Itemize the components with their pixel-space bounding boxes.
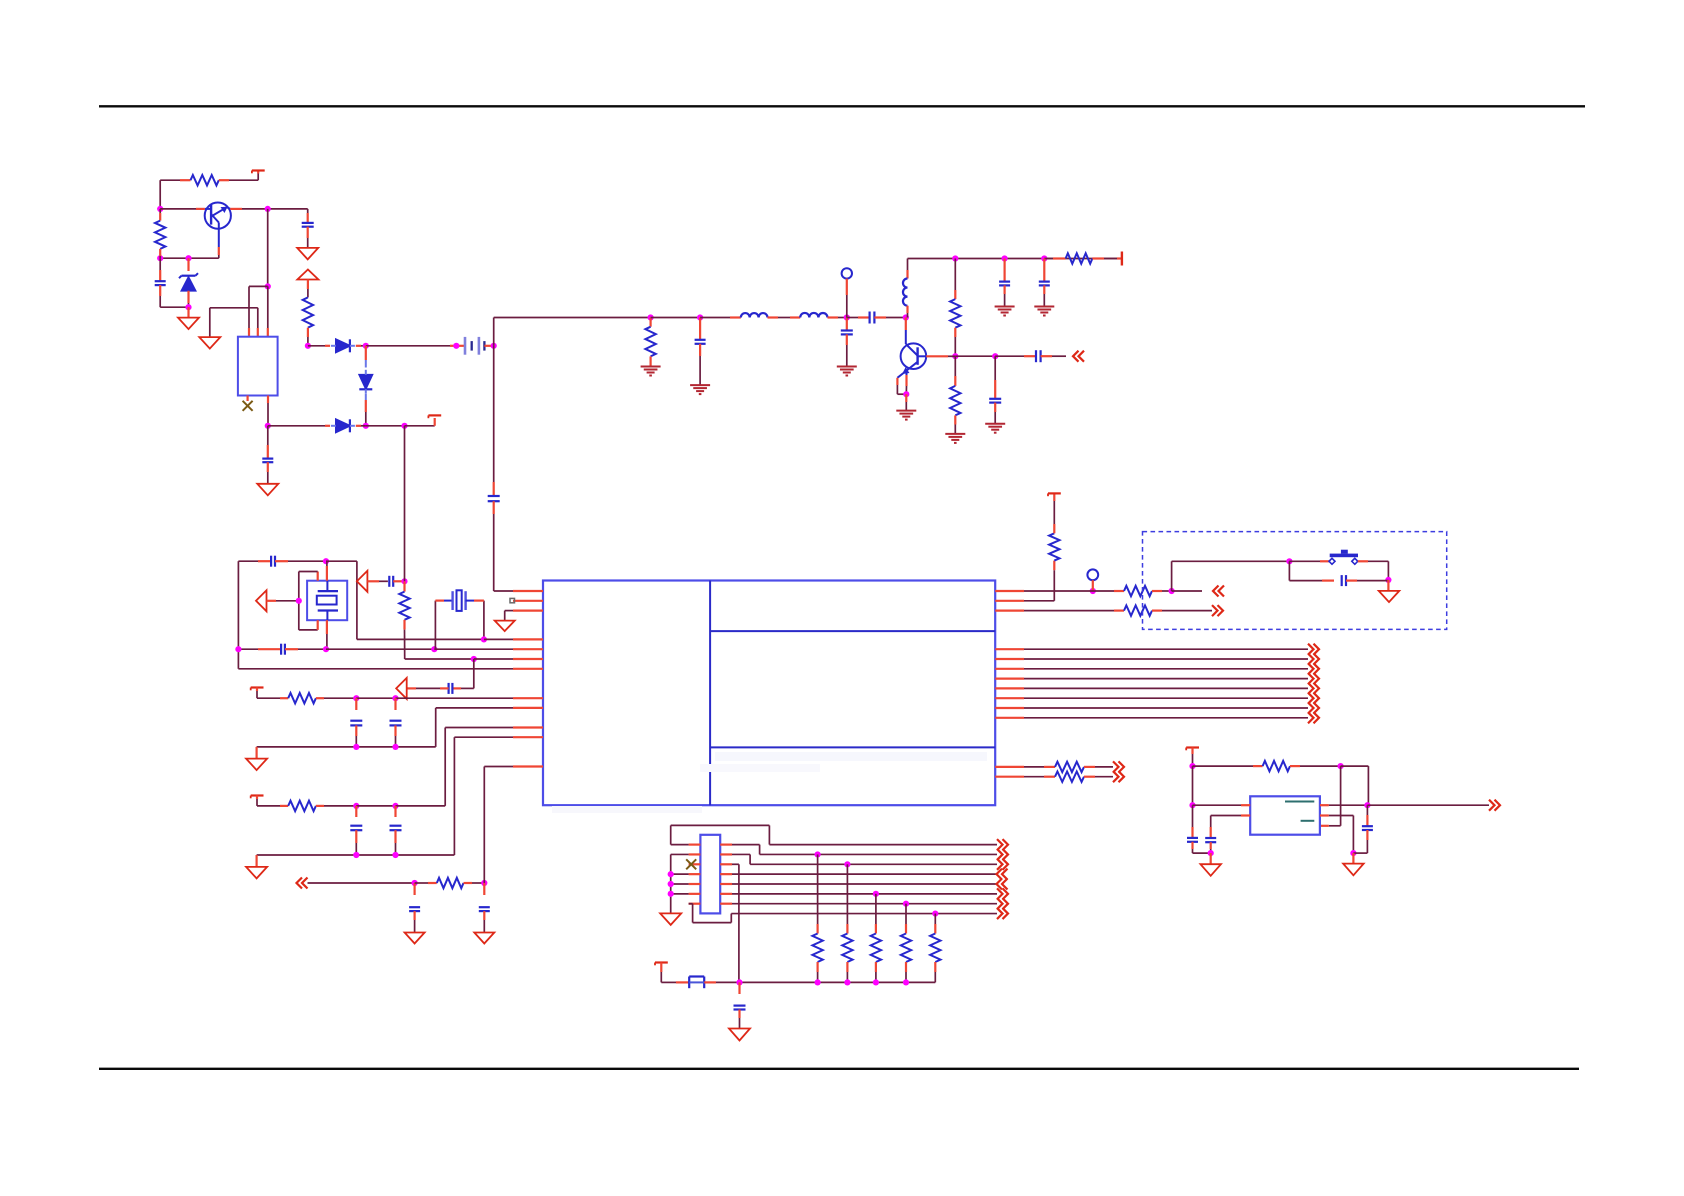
capacitor C16 [355,806,357,817]
junction [353,852,359,858]
capacitor C3 to IC [493,346,495,482]
wire r2 right jog [732,853,750,855]
junction [453,343,459,349]
ground GND6 [474,933,494,944]
oscillator Y1 [307,581,347,621]
capacitor C25 [267,426,269,445]
top frame line [99,105,1585,107]
wire pinB left [1241,814,1250,816]
offpage connectors bottom bus [1003,839,1009,850]
resistor R2 [159,209,161,213]
wire r7 left loop row8 [689,903,693,905]
ground GND3 [256,747,258,759]
junction [323,558,329,564]
wire main horizontal [494,317,651,319]
junction [353,695,359,701]
resistor R3 [307,280,309,290]
resistor R1 [191,175,219,185]
diode D2 [336,419,350,432]
wire row767 [1024,766,1044,768]
transistor Q1 [205,203,231,229]
capacitor C10 series [995,355,1024,357]
capacitor C1 [159,258,161,270]
junction [844,314,850,320]
capacitor C21 [738,982,740,994]
junction [265,423,271,429]
left ground vertical [671,853,689,855]
wire r1 left loop [671,844,689,846]
junction [392,744,398,750]
supervisor IC U2 [238,337,278,396]
resistor R8 [403,581,405,591]
wire row611 right [1024,610,1114,612]
junction [235,646,241,652]
capacitor C2 [307,209,309,213]
wire down to arrow row [473,659,475,688]
bus row1 [769,844,997,846]
junction [157,255,163,261]
wire to power bar [405,425,435,427]
pull resistor RN5 [934,914,936,924]
power symbol VCC6 [1048,492,1061,494]
capacitor C23 [1210,827,1212,838]
capacitor C18 [414,883,416,895]
IC right pins top [995,590,1024,592]
transistor Q2 [905,318,907,331]
junction [1338,763,1344,769]
junction [353,744,359,750]
bus row2 [760,853,997,855]
ground GND14 [209,308,211,337]
junction [1286,558,1292,564]
ground GND5 [405,933,425,944]
earth ground E2 [690,384,710,386]
offpage connectors right bus [1314,644,1320,655]
ground GND8 [1387,580,1389,591]
junction [491,343,497,349]
resistor R17 [1263,761,1290,771]
offpage connector right3 [1119,771,1125,782]
earth ground E6 [1034,306,1054,308]
bottom rail [661,981,676,983]
junction [1364,802,1370,808]
wire reg top [1193,765,1254,767]
junction [185,255,191,261]
resistor R15 [1055,762,1084,772]
junction [952,353,958,359]
junction dots on bus [815,851,821,857]
resistor R11 [415,882,428,884]
IC right pins bus [995,648,1024,650]
ground GND12 [1352,853,1354,864]
junction [903,314,909,320]
offpage connector right2 [1119,761,1125,772]
wire row E to pin766 [483,767,485,884]
wire from diode row2 down [404,426,406,582]
junction [1090,588,1096,594]
crystal Y2 [434,601,436,650]
capacitor C19 [483,883,485,895]
wire r3 to rail [732,863,739,865]
wire to battery [366,345,450,347]
wire row 698 [257,697,280,699]
junction [668,891,674,897]
earth ground E1 [641,366,661,368]
capacitor C24 [1366,805,1368,815]
capacitor C7 [994,356,996,380]
wire to zener ground node [160,306,188,308]
wire supervisor mid pin [210,307,258,309]
resistor R12 [1124,586,1152,596]
power symbol VCC1 [252,169,265,171]
left vertical osc [237,561,239,669]
wire Q2 collector row [926,355,948,357]
ghost text residue [715,752,987,761]
offpage connector left1 [1073,351,1079,362]
capacitor C12 [388,576,390,587]
connector pins [689,843,701,845]
resistor R9 [288,693,316,703]
junction [363,343,369,349]
wire battery node up [493,318,495,346]
wire row C to pin728 [444,728,446,806]
power arrow VDD [297,270,318,280]
wire to switch net [1171,561,1173,591]
power symbol VCC2 [428,414,441,416]
resistor R10 [288,801,316,811]
zener diode Z1 [187,258,189,271]
inductor L1 [741,313,768,317]
wire top rail to cap column [268,208,308,210]
ground GND7 pin611 [505,610,513,612]
offpage connector left3 [1172,590,1202,592]
main vertical net [267,209,269,287]
pin1 square marker [510,598,515,602]
bus row3 [750,863,997,865]
wire top-left rail [160,179,180,181]
wire switch right down [1387,561,1389,580]
junction [873,979,879,985]
IC U1 divider vertical [709,581,711,806]
junction [323,646,329,652]
junction [1169,588,1175,594]
ground GND10 [729,1029,750,1041]
wire row E [308,882,415,884]
earth ground E3 [837,366,857,368]
wire top rail RF [908,258,1122,260]
no-connect X [247,396,249,402]
wire pinA left [1241,804,1250,806]
junction [305,343,311,349]
capacitor C17 [394,806,396,817]
power arrow left A3 [396,678,407,699]
wire pinC branch [1340,766,1342,826]
IC left pins [513,590,543,592]
wire row C [257,805,280,807]
resistor R7 rail [1044,258,1053,260]
wire osc right vertical [356,561,358,639]
capacitor C4 [699,318,701,340]
connector J1 [700,835,720,914]
junction [903,979,909,985]
bus wires right [1024,648,1308,650]
junction [265,206,271,212]
ground GND9 [660,913,681,925]
resistor R6 [954,356,956,376]
wire diode row2 [268,425,325,427]
diode D3 vertical [365,346,367,360]
offpage connector left2 [297,878,303,889]
IC right pins lower [995,766,1024,768]
wire r1 right jog [732,844,760,846]
ground GND2 [297,248,318,260]
junction [392,852,398,858]
resistor R14 [1124,605,1152,615]
wire Q1 collector down [218,229,220,247]
IC U1 divider h1 [710,630,995,632]
junction [1350,850,1356,856]
capacitor C11 [270,556,272,567]
junction [648,314,654,320]
junction [1208,850,1214,856]
node A junction [157,206,163,212]
bus row8 [731,913,997,915]
bus rows 4-7 [732,873,997,875]
power symbol VCC7 [655,961,668,963]
capacitor C20 [1341,575,1343,586]
inductor L2 [800,313,827,318]
ground GND13 [257,484,278,496]
junction [1041,255,1047,261]
IC U1 outline [543,581,995,806]
junction [1189,802,1195,808]
wire [651,317,701,319]
junction [1189,763,1195,769]
wire row B [257,746,436,748]
power symbol VCC4 [251,686,264,688]
junction [471,656,477,662]
ground GND1 [187,307,189,317]
power arrow left A1 [256,590,267,611]
ground GND4 [256,855,258,867]
wire reg left vertical [1192,766,1194,805]
earth ground E8 [985,423,1005,425]
junction [1385,577,1391,583]
wire reg right vertical [1367,766,1369,805]
wire R8 to xtal row [404,630,406,659]
junction [353,803,359,809]
wire Q1 emitter to node [230,208,242,210]
wire base feed [160,208,196,210]
wire switch top [1289,560,1320,562]
earth ground E7 [905,394,907,402]
power arrow left A2 [357,571,368,592]
junction [1002,255,1008,261]
junction [412,880,418,886]
capacitor C9 [1043,259,1045,282]
IC U1 divider h2 [710,746,995,748]
wire [700,317,730,319]
resistor R13 [1053,561,1055,571]
pull resistor RN3 [875,894,877,924]
regulator U3 [1250,796,1320,834]
pull resistor RN1 [817,854,819,924]
wire osc top [238,560,258,562]
resistor R5 [954,259,956,291]
junction [815,979,821,985]
power bar VCC3 [1121,252,1123,266]
junction [952,255,958,261]
osc box pins [317,572,319,581]
capacitor C26 [452,687,461,689]
junction [392,803,398,809]
junction [401,423,407,429]
junction [401,578,407,584]
junction [844,979,850,985]
wire supervisor out [267,396,269,404]
junction [296,598,302,604]
dashed option box [1143,532,1447,630]
junction [697,314,703,320]
wire row601 right [1024,600,1054,602]
junction [668,871,674,877]
resistor R16 [1055,772,1084,782]
wire osc bottom row [238,648,258,650]
wire Q2 emitter [896,378,898,385]
capacitor C14 [355,698,357,710]
wire row B to pin708 [435,708,437,747]
diode D1 [336,339,350,352]
wire row 258 [160,257,219,259]
junction [481,636,487,642]
junction [736,979,742,985]
capacitor C8 [1003,259,1005,282]
no-connect X2 [686,859,696,869]
capacitor C13 [280,644,282,655]
regulator text lines [1285,801,1314,803]
battery BT1 [464,337,467,355]
capacitor C15 [394,698,396,710]
power symbol VCC8 [1186,746,1199,748]
wire row591 right [1024,590,1086,592]
earth ground E4 [945,433,965,435]
testpoint TP1 [842,268,852,278]
wire cap branch [1288,561,1290,580]
junction [431,646,437,652]
testpoint TP2 [1087,569,1098,580]
wire row D to pin737 [453,737,455,855]
junction [992,353,998,359]
wire supervisor left pin [249,285,268,287]
resistor R4 [649,318,651,327]
wire row777 [1024,776,1044,778]
pull resistor RN4 [905,904,907,924]
junction [668,881,674,887]
junction [185,304,191,310]
pushbutton SW1 [1330,554,1358,558]
capacitor C6 series [847,317,858,319]
junction [363,423,369,429]
offpage connector right4 [1495,800,1501,811]
junction [392,695,398,701]
wire row D [257,854,455,856]
wire row 668.8 [238,668,513,670]
wire left vertical top [159,180,161,209]
offpage connector right1 [1218,605,1224,616]
power symbol VCC5 [251,794,264,796]
pull resistor RN2 [846,864,848,924]
earth ground E5 [995,306,1015,308]
ground GND11 [1210,853,1212,864]
junction [481,880,487,886]
bottom frame line [99,1068,1579,1070]
junction [903,391,909,397]
wire pinA right [1320,804,1329,806]
capacitor C5 [846,318,848,331]
wire row 659 to IC [474,658,513,660]
wire diode row1 [308,345,325,347]
wire reg gnd rail [1193,852,1211,854]
inductor L3 [907,259,909,271]
wire pinB right [1320,814,1329,816]
capacitor C22 [1192,805,1194,827]
wire row 639.4 [357,638,484,640]
fuse F1 [689,975,704,977]
